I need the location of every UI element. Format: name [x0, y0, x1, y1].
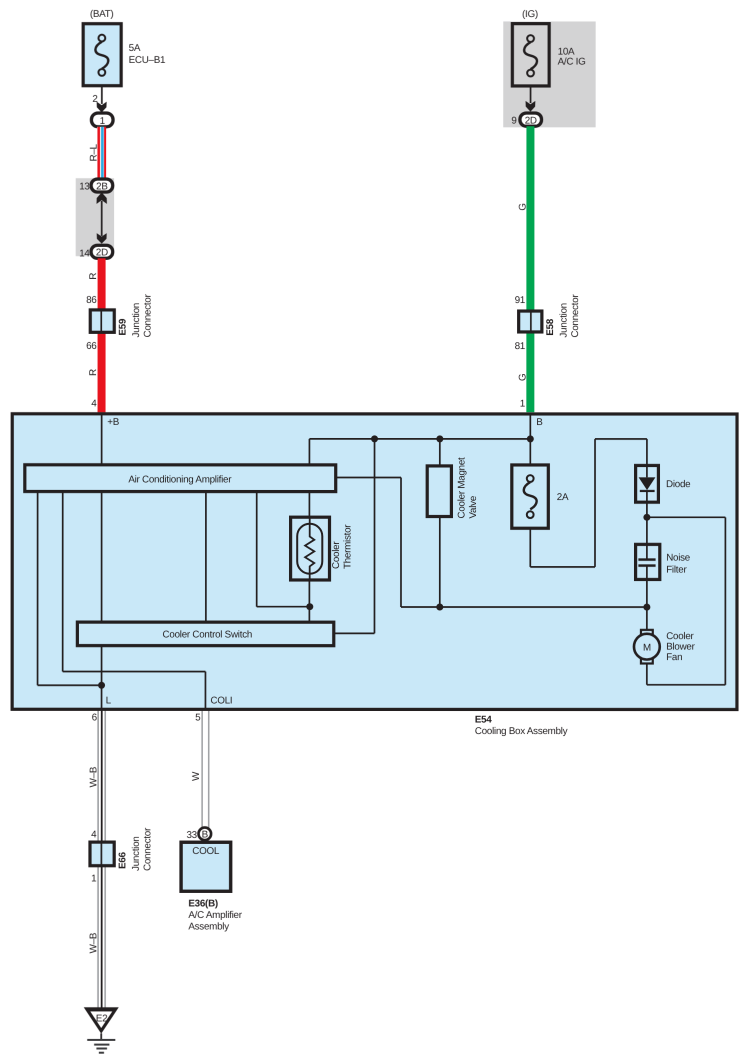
svg-text:+B: +B: [107, 417, 119, 428]
wire amplifier drop 1 to L junction: [37, 491, 39, 685]
svg-text:Air Conditioning Amplifier: Air Conditioning Amplifier: [128, 474, 232, 485]
svg-text:E59: E59: [117, 318, 128, 335]
svg-text:2B: 2B: [96, 181, 108, 192]
svg-text:5A: 5A: [129, 43, 141, 54]
svg-text:W–B: W–B: [88, 766, 99, 787]
svg-text:E2: E2: [96, 1014, 107, 1025]
svg-text:Valve: Valve: [468, 495, 479, 518]
svg-text:COLI: COLI: [210, 696, 232, 707]
svg-text:4: 4: [91, 398, 97, 409]
svg-text:E36(B): E36(B): [188, 898, 218, 909]
svg-text:A/C IG: A/C IG: [558, 57, 586, 68]
circuit breaker 2A: [512, 465, 569, 528]
gray block IG: [503, 21, 595, 127]
svg-text:G: G: [517, 374, 528, 381]
connector block 2B/2D gray box: [76, 178, 114, 256]
svg-text:Connector: Connector: [142, 827, 153, 871]
svg-text:Junction: Junction: [131, 303, 142, 338]
wire valve top: [439, 439, 441, 466]
wire +B into amplifier: [101, 414, 103, 465]
svg-text:91: 91: [515, 295, 525, 306]
svg-text:Junction: Junction: [559, 303, 570, 338]
svg-text:Thermistor: Thermistor: [343, 524, 354, 569]
svg-text:Assembly: Assembly: [188, 922, 229, 933]
connector oval 2D: [520, 113, 542, 126]
wire R red: [98, 258, 106, 412]
svg-text:W: W: [191, 771, 202, 781]
svg-text:Connector: Connector: [570, 294, 581, 338]
wire amplifier drop to switch: [205, 491, 207, 622]
connector oval 1: [91, 113, 113, 127]
junction dot diode bottom: [643, 514, 650, 521]
junction dot noise filter / motor: [643, 604, 650, 611]
cooler magnet valve: [427, 457, 479, 519]
connector oval 2D: [91, 245, 113, 258]
svg-text:13: 13: [79, 181, 90, 192]
svg-text:Cooler Control Switch: Cooler Control Switch: [163, 630, 253, 641]
wire R-L striped: [89, 127, 106, 180]
wire W-B (L to ground): [97, 711, 107, 1009]
svg-text:E66: E66: [117, 851, 128, 868]
wire amplifier right to bottom bus: [335, 476, 402, 478]
svg-text:ECU–B1: ECU–B1: [129, 55, 166, 66]
diode: [636, 465, 692, 502]
svg-text:2D: 2D: [525, 115, 537, 126]
wire G green: [526, 126, 534, 412]
wire amplifier drop to thermistor bottom: [256, 491, 258, 607]
svg-text:Diode: Diode: [666, 479, 691, 490]
E54 cooling box assembly outline: [12, 414, 737, 710]
wire fuse to 2D: [530, 86, 532, 103]
svg-text:86: 86: [86, 295, 97, 306]
svg-text:R: R: [88, 273, 99, 280]
svg-text:M: M: [643, 643, 651, 654]
arrow up: [97, 192, 107, 204]
svg-text:A/C Amplifier: A/C Amplifier: [188, 910, 242, 921]
connector circle B: [198, 828, 211, 841]
junction dot top bus / switch branch: [371, 435, 378, 442]
junction connector E58: [519, 294, 582, 338]
arrow down: [526, 101, 536, 112]
wire noise filter to motor: [646, 580, 648, 630]
wire between arrows: [101, 201, 103, 236]
svg-text:W–B: W–B: [88, 932, 99, 953]
junction dot valve bottom bus: [436, 604, 443, 611]
svg-text:Cooler: Cooler: [331, 541, 342, 569]
junction dot top bus / valve top: [436, 435, 443, 442]
svg-text:B: B: [202, 829, 209, 840]
wire motor bottom: [646, 663, 648, 685]
junction dot L node: [98, 682, 105, 689]
svg-text:(BAT): (BAT): [90, 9, 114, 20]
svg-text:1: 1: [520, 398, 525, 409]
box E36(B) COOL: [181, 842, 231, 891]
wire valve bottom: [439, 516, 441, 608]
svg-text:Cooling Box Assembly: Cooling Box Assembly: [475, 726, 568, 737]
svg-text:E58: E58: [545, 318, 556, 335]
svg-text:Fan: Fan: [666, 652, 682, 663]
arrow down: [97, 102, 107, 113]
wire fuse to connector 1: [101, 87, 103, 104]
svg-text:E54: E54: [475, 715, 492, 726]
svg-text:L: L: [106, 696, 112, 707]
fuse 5A ECU-B1: [83, 24, 165, 86]
svg-text:14: 14: [79, 248, 90, 259]
wire thermistor column: [308, 491, 310, 517]
svg-text:Filter: Filter: [666, 565, 687, 576]
junction connector E66: [90, 827, 153, 871]
wire top horizontal bus: [309, 438, 530, 440]
svg-text:G: G: [517, 203, 528, 210]
svg-text:9: 9: [511, 116, 516, 127]
svg-text:R: R: [88, 369, 99, 376]
wire to cooler control switch right: [373, 439, 375, 634]
svg-text:Connector: Connector: [142, 293, 153, 337]
cooler blower fan motor: [634, 630, 696, 664]
junction dot thermistor bottom: [306, 603, 313, 610]
wire diode bottom to right branch: [647, 516, 725, 518]
junction dot B node: [527, 435, 534, 442]
wire riser amplifier top: [308, 439, 310, 466]
svg-text:1: 1: [100, 116, 105, 127]
svg-text:6: 6: [92, 712, 98, 723]
svg-text:R–L: R–L: [89, 143, 100, 161]
svg-text:(IG): (IG): [522, 9, 538, 20]
wire bottom bus horizontal: [401, 606, 647, 608]
ground E2: [84, 1007, 119, 1052]
svg-text:1: 1: [91, 873, 96, 884]
cooler control switch box: [77, 622, 333, 646]
fuse 10A A/C IG: [512, 24, 585, 86]
cooler thermistor: [291, 517, 354, 581]
svg-text:66: 66: [86, 341, 97, 352]
svg-text:2A: 2A: [557, 492, 569, 503]
wire amplifier drop 2 to COLI: [62, 491, 64, 672]
wire L drop: [101, 491, 103, 710]
svg-text:81: 81: [515, 341, 525, 352]
wire B into 2A: [529, 414, 531, 466]
wire diode to noise filter: [646, 502, 648, 544]
svg-text:33: 33: [186, 830, 197, 841]
svg-text:5: 5: [195, 712, 201, 723]
junction connector E59: [90, 293, 153, 337]
svg-text:Junction: Junction: [131, 836, 142, 871]
svg-text:Noise: Noise: [666, 553, 691, 564]
connector oval 2B: [91, 179, 113, 192]
arrow down: [97, 233, 107, 244]
svg-text:Cooler Magnet: Cooler Magnet: [457, 457, 468, 519]
svg-text:COOL: COOL: [192, 846, 220, 857]
svg-text:4: 4: [91, 829, 97, 840]
air conditioning amplifier box: [25, 465, 336, 492]
svg-text:B: B: [536, 417, 543, 428]
wire W (COLI to E36): [201, 711, 209, 828]
noise filter: [636, 544, 691, 580]
wire 2A bottom loop to diode top: [529, 529, 531, 567]
svg-text:2D: 2D: [96, 248, 108, 259]
